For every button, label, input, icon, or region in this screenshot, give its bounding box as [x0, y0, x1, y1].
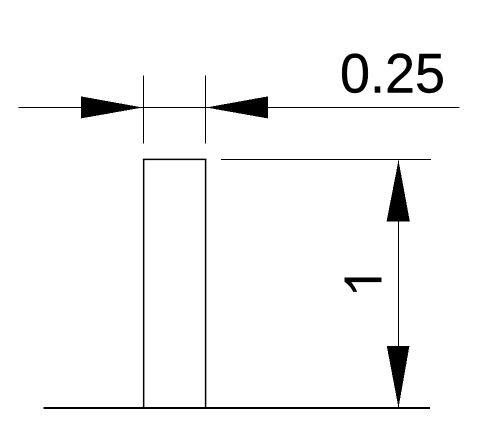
dimension text 1 (rotated glyph drawn as path): [345, 278, 382, 292]
arrowhead left (points right toward left extension line): [81, 96, 143, 118]
bar right edge: [205, 159, 207, 409]
svg-text:0.25: 0.25: [340, 42, 445, 105]
arrowhead down (points down toward baseline): [387, 346, 410, 408]
extension line right (width dim): [205, 76, 207, 144]
baseline (ground line): [44, 407, 431, 409]
extension line left (width dim): [143, 76, 145, 144]
arrowhead up (points up toward top extension line): [387, 160, 410, 221]
arrowhead right (points left toward right extension line): [206, 96, 268, 118]
dimension line 1 (vertical): [398, 160, 400, 407]
dimension line 0.25 (horizontal): [19, 107, 460, 109]
bar top edge: [143, 158, 206, 160]
bar left edge: [143, 159, 145, 409]
extension line top (height dim): [221, 159, 431, 161]
